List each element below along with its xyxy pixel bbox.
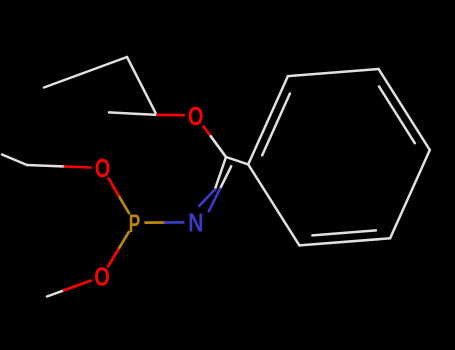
bond O-C red half (lower-left methyl) xyxy=(64,281,91,291)
bond C-C (top chain outer) xyxy=(44,57,127,88)
bond P-O (upper-left) (half 1) xyxy=(119,195,129,213)
bond C-O red half (top methyl) xyxy=(157,114,183,117)
bond P-O (lower-left) (half 1) xyxy=(118,232,129,250)
double bond C=N main line blue half xyxy=(199,190,215,206)
benzene edge right-bottom-right xyxy=(390,150,430,238)
bond P-N (half 2) xyxy=(165,221,183,224)
bond C-C (upper-left arm) xyxy=(2,155,27,166)
benzene inner line near edge bottom-right xyxy=(312,230,376,235)
benzene edge bottom-right-bottom-left xyxy=(299,238,390,245)
benzene edge ipso-top-left xyxy=(248,76,288,164)
bond O-C (to imino carbon) (half 2) xyxy=(211,136,226,157)
svg-text:N: N xyxy=(188,209,203,237)
bond O-C (to imino carbon) (half 1) xyxy=(204,127,211,137)
double bond C=N main line white half xyxy=(215,157,226,190)
benzene edge top-right-right xyxy=(379,69,430,150)
bond O-C (upper-left methyl) (half 1) xyxy=(27,165,65,167)
benzene edge top-left-top-right xyxy=(288,69,379,76)
svg-text:O: O xyxy=(94,262,110,291)
bond P-N (half 1) xyxy=(146,221,166,224)
bond P-O (upper-left) (half 2) xyxy=(109,178,119,195)
double bond C=N second line blue half xyxy=(209,189,220,211)
bond C-ring (to ipso carbon) xyxy=(226,157,248,164)
double bond C=N second line white half xyxy=(220,166,231,189)
bond O-C (upper-left methyl) (half 2) xyxy=(65,167,91,168)
bond P-O (lower-left) (half 2) xyxy=(108,250,118,267)
svg-text:O: O xyxy=(95,154,111,183)
svg-text:P: P xyxy=(129,209,141,238)
bond O-C white half (lower-left methyl) xyxy=(47,290,64,296)
svg-text:O: O xyxy=(188,101,204,130)
benzene inner line near edge ipso xyxy=(262,94,290,156)
benzene edge bottom-left-ipso xyxy=(248,164,299,245)
bond C-C (top chain inner) xyxy=(127,57,156,113)
bond C-O white half (top methyl) xyxy=(109,112,157,115)
benzene inner line near edge top-right xyxy=(379,86,415,143)
